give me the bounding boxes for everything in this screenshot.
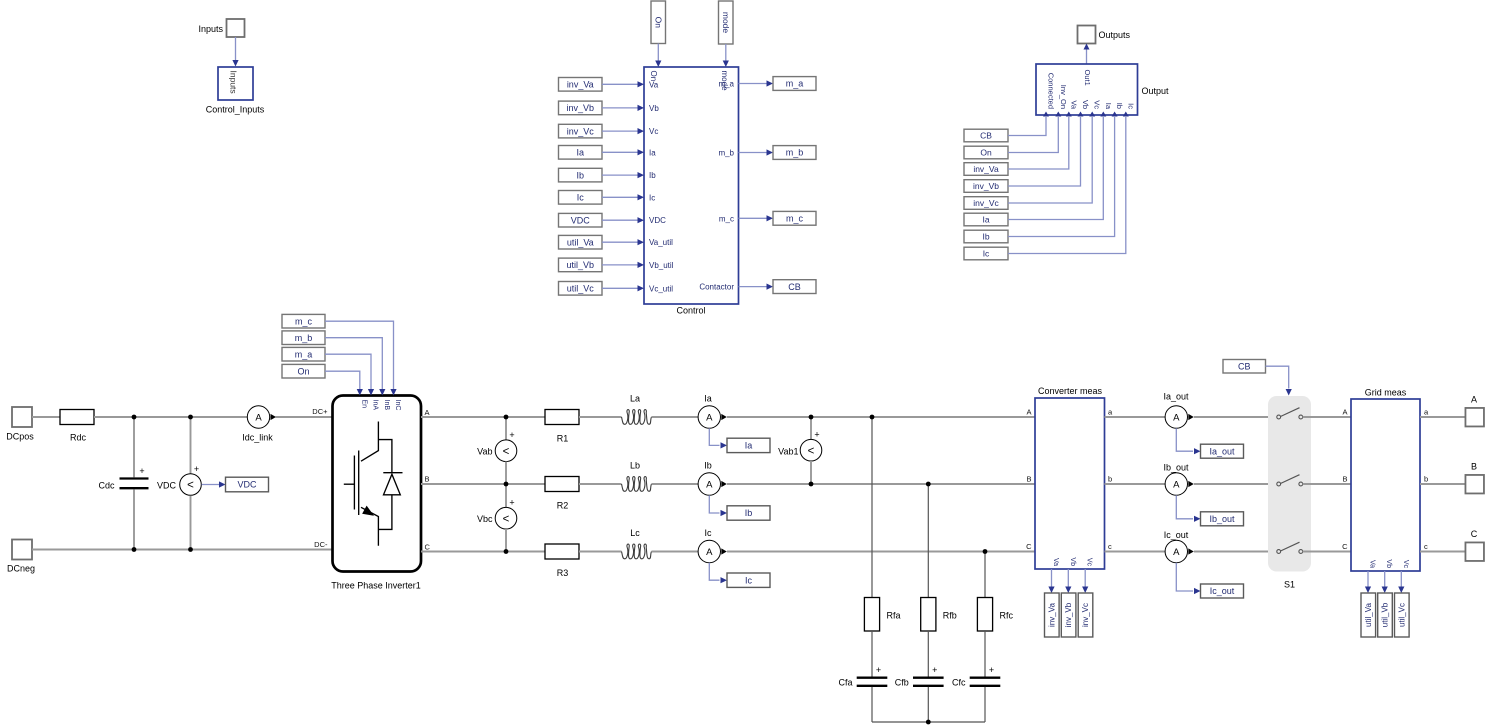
svg-text:Cfc: Cfc xyxy=(952,678,966,688)
wire mode to Control xyxy=(725,44,727,61)
wire CB to Output port Connected xyxy=(1008,117,1046,136)
wire phase C Lc to Ic xyxy=(652,551,699,553)
arrowhead mode into Control xyxy=(723,61,729,68)
svg-text:A: A xyxy=(706,547,713,558)
svg-text:Ib: Ib xyxy=(649,171,656,180)
svg-text:Va_util: Va_util xyxy=(649,238,673,247)
goto tag Ic xyxy=(727,573,770,587)
svg-text:Rdc: Rdc xyxy=(70,432,87,442)
svg-text:<: < xyxy=(808,445,815,457)
svg-text:a: a xyxy=(1108,407,1113,416)
arrowhead into tag m_c xyxy=(767,215,774,221)
arrowhead into tag Ia xyxy=(721,442,728,448)
wire VDC meter top lead xyxy=(190,417,192,474)
svg-text:En: En xyxy=(360,400,367,409)
svg-text:Rfb: Rfb xyxy=(943,611,957,621)
switch S1 pole A xyxy=(1277,408,1303,419)
svg-text:Vc_util: Vc_util xyxy=(649,284,673,293)
junction Vab-Vbc / phase B xyxy=(504,482,509,487)
svg-text:B: B xyxy=(1471,462,1477,472)
wire Ia to Output port Ia xyxy=(1008,117,1103,220)
wire VDC meter to tag xyxy=(202,484,220,486)
goto tag inv_Vc (vertical) xyxy=(1078,593,1093,637)
svg-text:+: + xyxy=(814,430,819,440)
subsystem Output xyxy=(1036,64,1138,115)
wire util_Va to Control xyxy=(602,241,638,243)
junction Vab1 / phase A xyxy=(809,415,814,420)
wire VDC to Control xyxy=(602,219,638,221)
svg-text:A: A xyxy=(1173,479,1180,490)
block Grid meas xyxy=(1351,399,1420,571)
arrowhead inv_Vb into Control xyxy=(638,105,645,111)
svg-text:a: a xyxy=(1424,407,1429,416)
wire Ic_out to S1 xyxy=(1194,551,1277,553)
goto tag Ia_out xyxy=(1201,444,1244,458)
svg-text:Connected: Connected xyxy=(1047,73,1056,109)
resistor R1 xyxy=(545,410,579,425)
svg-text:Ia: Ia xyxy=(745,441,753,451)
wire Converter meas Vb to tag inv_Vb xyxy=(1067,569,1069,587)
wire phase A Ia to Converter meas xyxy=(727,416,1035,418)
wire Rfb top lead xyxy=(927,484,929,598)
svg-text:A: A xyxy=(1026,407,1031,416)
svg-text:Va: Va xyxy=(649,80,659,89)
wire Idc_link to inverter DC+ xyxy=(276,416,333,418)
goto tag inv_Va (vertical) xyxy=(1045,593,1060,637)
svg-text:Output: Output xyxy=(1142,86,1170,96)
svg-text:A: A xyxy=(425,408,430,417)
from tag inv_Vb (Control input) xyxy=(559,101,603,115)
resistor R2 xyxy=(545,477,579,492)
svg-text:Ib: Ib xyxy=(745,508,753,518)
svg-text:Ic: Ic xyxy=(649,193,655,202)
voltmeter Vab1 xyxy=(800,430,822,461)
svg-text:<: < xyxy=(187,480,194,492)
wire Converter meas to Ia_out xyxy=(1105,416,1166,418)
port DCpos xyxy=(12,407,32,427)
wire inv_Va to Output port Va xyxy=(1008,117,1069,169)
from tag CB (Output input) xyxy=(964,129,1008,142)
svg-text:Inputs: Inputs xyxy=(229,71,239,94)
svg-text:C: C xyxy=(425,542,431,551)
ammeter Ib xyxy=(698,473,727,495)
arrowhead m_a into inverter xyxy=(368,389,374,396)
svg-text:Converter meas: Converter meas xyxy=(1038,386,1103,396)
svg-text:Control: Control xyxy=(676,306,705,316)
wire Converter meas to Ib_out xyxy=(1105,483,1166,485)
svg-text:Ic: Ic xyxy=(983,249,990,259)
goto tag util_Vc (vertical) xyxy=(1395,593,1410,637)
wire Converter meas Va to tag inv_Va xyxy=(1051,569,1053,587)
wire Ic_out meter to tag xyxy=(1176,563,1193,591)
goto tag Ic_out xyxy=(1201,584,1244,598)
svg-text:<: < xyxy=(503,513,510,525)
svg-text:inv_Va: inv_Va xyxy=(567,80,594,90)
svg-text:Ic: Ic xyxy=(704,528,712,538)
svg-text:InA: InA xyxy=(372,400,379,411)
wire inv_Vb to Output port Vb xyxy=(1008,117,1081,186)
svg-text:Va: Va xyxy=(1069,100,1078,109)
svg-text:Vc: Vc xyxy=(1093,100,1102,109)
wire Rfa to Cfa xyxy=(871,631,873,677)
svg-text:Ia: Ia xyxy=(704,394,712,404)
arrowhead CB into S1 xyxy=(1286,389,1292,396)
wire S1 to Grid meas phase C xyxy=(1303,551,1351,553)
wire Ic meter to tag xyxy=(709,563,719,580)
goto tag m_a (Control output) xyxy=(773,77,816,91)
wire DCpos to Rdc xyxy=(32,416,60,418)
switch S1 pole B xyxy=(1277,475,1303,486)
svg-text:InC: InC xyxy=(394,400,401,411)
from tag inv_Vb (Output input) xyxy=(964,180,1008,193)
svg-text:On: On xyxy=(653,17,663,29)
svg-text:util_Va: util_Va xyxy=(1364,603,1373,627)
capacitor Cfc xyxy=(970,665,1001,686)
inductor La xyxy=(622,410,652,425)
svg-text:Idc_link: Idc_link xyxy=(242,432,273,442)
svg-text:Grid meas: Grid meas xyxy=(1365,387,1407,397)
svg-text:DC+: DC+ xyxy=(312,407,328,416)
from tag m_c (inverter gate) xyxy=(282,314,325,328)
svg-text:Three Phase Inverter1: Three Phase Inverter1 xyxy=(331,581,421,591)
junction Rfc / phase C xyxy=(983,549,988,554)
svg-text:S1: S1 xyxy=(1284,580,1295,590)
svg-text:A: A xyxy=(1173,547,1180,558)
wire Grid meas to port A xyxy=(1420,416,1466,418)
wire Grid meas to port C xyxy=(1420,551,1466,553)
port A (grid) xyxy=(1465,408,1484,427)
junction Cfb / neutral bus xyxy=(926,720,931,725)
svg-text:+: + xyxy=(876,665,881,675)
ammeter Ia xyxy=(698,406,727,428)
svg-text:m_a: m_a xyxy=(295,349,313,359)
svg-text:inv_Vc: inv_Vc xyxy=(567,126,595,136)
from tag util_Vc (Control input) xyxy=(559,282,603,296)
junction Cdc / DC+ bus xyxy=(132,415,137,420)
wire Ib to Output port Ib xyxy=(1008,117,1115,237)
arrowhead util_Vb into Control xyxy=(638,262,645,268)
wire Rfa top lead xyxy=(871,417,873,598)
svg-text:Control_Inputs: Control_Inputs xyxy=(206,105,265,115)
wire Control to CB xyxy=(739,286,767,288)
arrowhead m_c into inverter xyxy=(390,389,396,396)
svg-text:CB: CB xyxy=(1238,361,1251,371)
from tag inv_Va (Output input) xyxy=(964,163,1008,176)
svg-text:+: + xyxy=(509,430,514,440)
svg-text:R2: R2 xyxy=(557,500,569,510)
junction Vab / phase A xyxy=(504,415,509,420)
goto tag Ib_out xyxy=(1201,512,1244,526)
wire phase B inverter to R2 xyxy=(421,483,545,485)
svg-text:A: A xyxy=(1471,395,1477,405)
junction Vbc / phase C xyxy=(504,549,509,554)
svg-text:Vb: Vb xyxy=(1081,100,1090,109)
wire Converter meas to Ic_out xyxy=(1105,551,1166,553)
wire phase B Lb to Ib xyxy=(652,483,699,485)
wire CB to S1 xyxy=(1266,366,1289,388)
svg-text:Vb_util: Vb_util xyxy=(649,261,674,270)
arrowhead into tag inv_Vc xyxy=(1082,587,1088,594)
switch S1 pole C xyxy=(1277,542,1303,553)
svg-text:Inputs: Inputs xyxy=(198,24,223,34)
svg-text:Ia: Ia xyxy=(649,148,656,157)
svg-text:b: b xyxy=(1108,474,1112,483)
svg-text:Ib: Ib xyxy=(704,461,712,471)
arrowhead util_Vc into Control xyxy=(638,285,645,291)
wire Control to m_a xyxy=(739,83,767,85)
arrowhead into tag inv_Va xyxy=(1048,587,1054,594)
svg-text:inv_Vb: inv_Vb xyxy=(1064,602,1073,627)
arrowhead into tag Ib xyxy=(721,510,728,516)
svg-text:util_Vc: util_Vc xyxy=(1397,603,1406,627)
wire On to Output port Inv_On xyxy=(1008,117,1058,153)
from tag On (top) xyxy=(651,1,666,44)
capacitor Cfb xyxy=(913,665,944,686)
arrowhead into tag CB xyxy=(767,284,774,290)
from tag inv_Vc (Output input) xyxy=(964,197,1008,210)
svg-text:Ic: Ic xyxy=(577,193,585,203)
wire Vbc top lead xyxy=(505,484,507,508)
resistor Rfa xyxy=(864,598,879,632)
wire DC- bus xyxy=(32,549,333,551)
svg-text:Rfc: Rfc xyxy=(1000,611,1014,621)
svg-text:Lb: Lb xyxy=(630,461,640,471)
svg-text:Outputs: Outputs xyxy=(1099,30,1131,40)
svg-text:Vb: Vb xyxy=(1069,557,1076,566)
svg-text:util_Va: util_Va xyxy=(567,237,594,247)
svg-text:Ia: Ia xyxy=(576,148,584,158)
svg-text:Vc: Vc xyxy=(1402,560,1409,569)
port square Inputs xyxy=(227,19,245,37)
wire inv_Va to Control xyxy=(602,83,638,85)
svg-text:A: A xyxy=(1342,407,1347,416)
wire On to Control xyxy=(657,44,659,61)
from tag VDC (Control input) xyxy=(559,213,603,227)
svg-text:CB: CB xyxy=(788,282,801,292)
wire util_Vb to Control xyxy=(602,264,638,266)
svg-text:m_b: m_b xyxy=(786,148,804,158)
svg-text:mode: mode xyxy=(721,12,731,34)
subsystem Control_Inputs xyxy=(218,67,253,100)
resistor R3 xyxy=(545,544,579,559)
arrowhead m_b into inverter xyxy=(379,389,385,396)
svg-text:Ic_out: Ic_out xyxy=(1164,530,1189,540)
svg-text:C: C xyxy=(1471,529,1478,539)
svg-text:inv_Vb: inv_Vb xyxy=(566,103,594,113)
svg-text:A: A xyxy=(1173,412,1180,423)
svg-text:Vbc: Vbc xyxy=(477,514,493,524)
arrowhead into tag VDC xyxy=(219,481,226,487)
arrowhead On into inverter xyxy=(357,389,363,396)
svg-text:m_b: m_b xyxy=(295,333,313,343)
wire Ic to Control xyxy=(602,196,638,198)
arrowhead inv_Vc into Output xyxy=(1089,112,1095,117)
port DCneg xyxy=(12,540,32,560)
svg-text:Cfa: Cfa xyxy=(838,678,852,688)
goto tag VDC xyxy=(226,477,269,492)
arrowhead inv_Vb into Output xyxy=(1078,112,1084,117)
svg-text:CB: CB xyxy=(980,131,992,141)
from tag mode (top) xyxy=(719,1,734,44)
wire On to inverter En xyxy=(325,371,360,389)
from tag Ia (Control input) xyxy=(559,146,603,160)
svg-text:inv_Va: inv_Va xyxy=(1047,603,1056,627)
svg-text:VDC: VDC xyxy=(237,480,257,490)
svg-text:m_c: m_c xyxy=(295,316,313,326)
port B (grid) xyxy=(1465,475,1484,494)
svg-text:util_Vb: util_Vb xyxy=(566,260,594,270)
wire Ib meter to tag xyxy=(709,495,719,513)
wire Grid meas Va to tag util_Va xyxy=(1367,571,1369,587)
subsystem Control xyxy=(644,67,739,304)
wire m_a to inverter InA xyxy=(325,354,371,389)
svg-text:Va: Va xyxy=(1369,560,1376,568)
svg-text:c: c xyxy=(1424,542,1428,551)
svg-text:util_Vb: util_Vb xyxy=(1381,602,1390,627)
from tag util_Va (Control input) xyxy=(559,235,603,249)
svg-text:InB: InB xyxy=(383,400,390,411)
junction Cdc / DC- bus xyxy=(132,547,137,552)
svg-text:m_a: m_a xyxy=(718,80,734,89)
wire Rfb to Cfb xyxy=(927,631,929,677)
goto tag m_c (Control output) xyxy=(773,211,816,225)
wire Ia to Control xyxy=(602,151,638,153)
svg-text:m_a: m_a xyxy=(786,79,804,89)
ammeter Ic xyxy=(698,540,727,562)
from tag util_Vb (Control input) xyxy=(559,258,603,272)
arrowhead into tag m_a xyxy=(767,80,774,86)
arrowhead into tag m_b xyxy=(767,149,774,155)
wire Ib to Control xyxy=(602,174,638,176)
resistor Rdc xyxy=(60,410,94,425)
svg-text:m_c: m_c xyxy=(786,214,804,224)
svg-text:Ia_out: Ia_out xyxy=(1163,392,1189,402)
svg-text:+: + xyxy=(194,464,199,474)
svg-text:A: A xyxy=(706,479,713,490)
svg-text:Cfb: Cfb xyxy=(895,678,909,688)
svg-text:inv_Va: inv_Va xyxy=(973,164,999,174)
wire phase C inverter to R3 xyxy=(421,551,545,553)
arrowhead Ib into Output xyxy=(1112,112,1118,117)
svg-text:Vb: Vb xyxy=(1385,559,1392,568)
wire Grid meas Vc to tag util_Vc xyxy=(1400,571,1402,587)
arrowhead into tag inv_Vb xyxy=(1065,587,1071,594)
wire Grid meas Vb to tag util_Vb xyxy=(1384,571,1386,587)
voltmeter Vab xyxy=(495,430,517,461)
wire m_c to inverter InC xyxy=(325,321,394,389)
arrowhead into tag util_Vb xyxy=(1382,587,1388,594)
from tag inv_Va (Control input) xyxy=(559,78,603,92)
wire Cfb bottom lead xyxy=(927,687,929,722)
from tag Ib (Output input) xyxy=(964,230,1008,243)
junction Rfb / phase B xyxy=(926,482,931,487)
junction VDC meter / DC+ bus xyxy=(188,415,193,420)
ammeter Ib_out xyxy=(1165,473,1194,495)
svg-text:On: On xyxy=(297,366,309,376)
ammeter Ic_out xyxy=(1165,540,1194,562)
wire phase A inverter to R1 xyxy=(421,416,545,418)
svg-text:Ib: Ib xyxy=(1115,103,1124,109)
svg-text:Ia: Ia xyxy=(1104,103,1113,110)
arrowhead util_Va into Control xyxy=(638,239,645,245)
svg-text:Vab: Vab xyxy=(477,447,492,457)
svg-text:inv_Vb: inv_Vb xyxy=(973,181,999,191)
svg-text:A: A xyxy=(255,412,262,423)
goto tag inv_Vb (vertical) xyxy=(1061,593,1076,637)
ammeter Idc_link xyxy=(247,406,276,428)
from tag On (Output input) xyxy=(964,146,1008,159)
wire VDC meter bottom lead xyxy=(190,496,192,550)
wire util_Vc to Control xyxy=(602,287,638,289)
wire inv_Vb to Control xyxy=(602,107,638,109)
arrowhead VDC into Control xyxy=(638,217,645,223)
arrowhead into tag Ib_out xyxy=(1194,516,1201,522)
svg-text:VDC: VDC xyxy=(649,216,666,225)
svg-text:R3: R3 xyxy=(557,568,569,578)
svg-text:On: On xyxy=(980,148,992,158)
wire Vab bottom lead xyxy=(505,462,507,485)
svg-text:Lc: Lc xyxy=(630,528,640,538)
wire S1 to Grid meas phase A xyxy=(1303,416,1351,418)
svg-text:+: + xyxy=(989,665,994,675)
arrowhead On into Control xyxy=(655,61,661,68)
from tag Ib (Control input) xyxy=(559,168,603,182)
svg-text:Ia: Ia xyxy=(982,215,989,225)
arrowhead into Outputs xyxy=(1084,44,1090,50)
svg-text:Vab1: Vab1 xyxy=(778,447,798,457)
voltmeter VDC xyxy=(180,464,202,495)
wire filter neutral bus xyxy=(872,721,985,723)
svg-text:VDC: VDC xyxy=(157,481,177,491)
wire Ia_out meter to tag xyxy=(1176,428,1193,451)
svg-text:DCneg: DCneg xyxy=(7,564,35,574)
resistor Rfc xyxy=(977,598,992,632)
arrowhead into tag Ia_out xyxy=(1194,448,1201,454)
svg-text:Vc: Vc xyxy=(649,127,658,136)
junction Rfa / phase A xyxy=(870,415,875,420)
svg-text:<: < xyxy=(503,446,510,458)
wire Control to m_c xyxy=(739,217,767,219)
svg-text:+: + xyxy=(509,498,514,508)
wire Rfc top lead xyxy=(984,552,986,598)
wire phase A R1 to La xyxy=(579,416,622,418)
arrowhead Ia into Control xyxy=(638,149,645,155)
svg-text:La: La xyxy=(630,394,640,404)
wire S1 to Grid meas phase B xyxy=(1303,483,1351,485)
from tag Ic (Output input) xyxy=(964,247,1008,260)
wire Control to m_b xyxy=(739,152,767,154)
wire Ib_out meter to tag xyxy=(1176,495,1193,519)
svg-text:Ic: Ic xyxy=(1126,103,1135,109)
arrowhead inv_Vc into Control xyxy=(638,128,645,134)
svg-text:Cdc: Cdc xyxy=(98,480,115,490)
wire Ia meter to tag xyxy=(709,428,719,445)
capacitor Cfa xyxy=(857,665,888,686)
from tag CB (breaker control) xyxy=(1223,360,1266,374)
arrowhead CB into Output xyxy=(1043,112,1049,117)
svg-text:A: A xyxy=(706,412,713,423)
goto tag Ib xyxy=(727,506,770,520)
svg-text:Ib: Ib xyxy=(982,232,989,242)
from tag m_a (inverter gate) xyxy=(282,347,325,361)
svg-text:Va: Va xyxy=(1052,558,1059,566)
arrowhead On into Output xyxy=(1055,112,1061,117)
port C (grid) xyxy=(1465,542,1484,561)
svg-text:Ic: Ic xyxy=(745,575,753,585)
wire phase B R2 to Lb xyxy=(579,483,622,485)
goto tag m_b (Control output) xyxy=(773,146,816,160)
resistor Rfb xyxy=(921,598,936,632)
